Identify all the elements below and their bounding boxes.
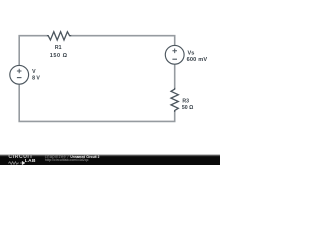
CircuitLab logo wordmark CIRCUIT	[8, 155, 48, 160]
V minus sign	[17, 77, 22, 79]
wire top-left segment	[19, 36, 47, 66]
svg-text:V: V	[32, 69, 36, 75]
resistor R1	[47, 32, 71, 40]
Vs minus sign	[172, 58, 177, 60]
V plus sign	[17, 69, 22, 74]
footer watermark bar	[0, 154, 220, 165]
svg-text:R3: R3	[182, 99, 189, 105]
wire right middle segment (Vs to R3)	[174, 64, 176, 89]
logo arrow	[20, 161, 25, 165]
svg-text:150 Ω: 150 Ω	[50, 53, 68, 59]
wire top-right segment	[71, 36, 175, 46]
voltage source Vs (circle)	[165, 45, 184, 64]
svg-text:Vs: Vs	[188, 51, 195, 57]
resistor R3	[171, 88, 178, 112]
voltage source V (circle)	[10, 65, 29, 84]
logo LAB text	[25, 160, 36, 165]
wire left lower and bottom segment	[19, 84, 175, 121]
svg-text:R1: R1	[55, 45, 62, 51]
svg-text:8 V: 8 V	[32, 76, 40, 82]
svg-text:600 mV: 600 mV	[187, 57, 208, 63]
logo resistor zigzag	[8, 161, 19, 165]
svg-text:50 Ω: 50 Ω	[182, 105, 193, 111]
Vs plus sign	[172, 49, 177, 54]
footer title line: chapinzee / Unnamed Circuit 2	[45, 155, 100, 159]
footer url line: http://circuitlab.com/c4d2qc	[45, 159, 89, 162]
